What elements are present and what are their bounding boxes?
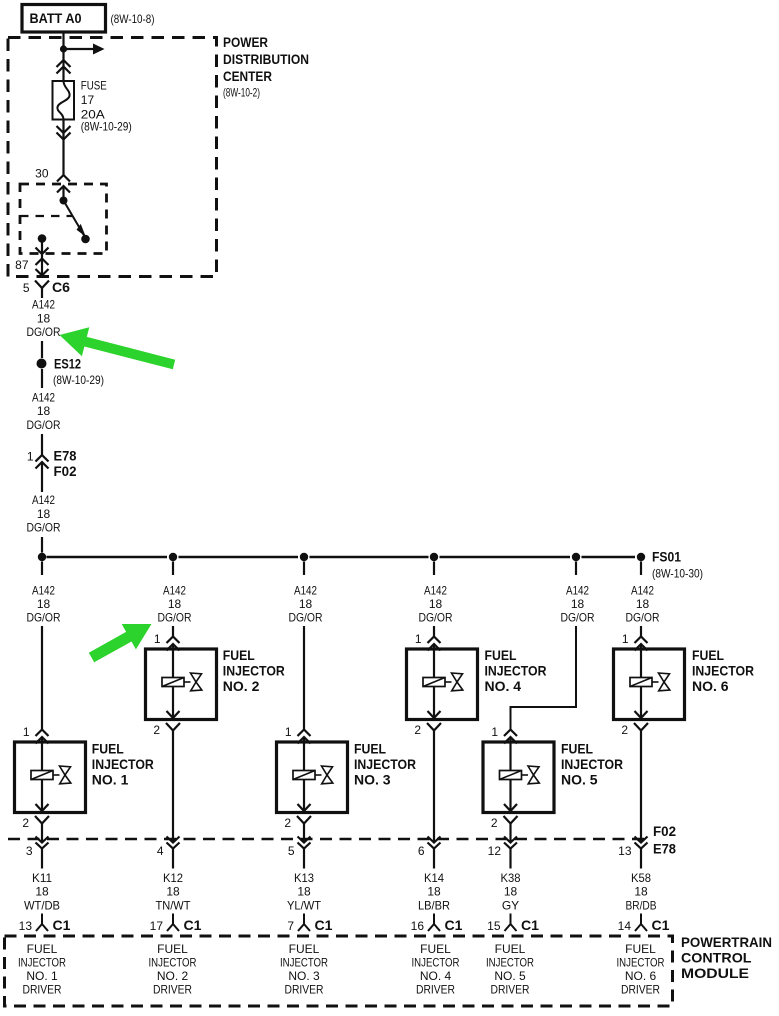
svg-text:18: 18 [168, 597, 182, 611]
injector 6 internal wire to pin 2 [635, 687, 648, 719]
svg-text:NO. 4: NO. 4 [485, 678, 522, 694]
wire label K14 18 LB/BR [418, 871, 450, 913]
pin 1 connector of injector 4 [415, 632, 441, 678]
svg-text:FUEL: FUEL [289, 942, 320, 956]
svg-text:18: 18 [427, 885, 441, 899]
wire from BATT A0 down to fuse [62, 32, 64, 81]
fuel injector no.3 label [354, 741, 416, 788]
svg-text:E78: E78 [653, 841, 676, 857]
injector 5 internal wire to pin 2 [504, 780, 517, 812]
fuel injector no.2 label [223, 647, 285, 694]
svg-text:C1: C1 [445, 917, 463, 933]
svg-text:C6: C6 [52, 279, 70, 295]
bus junction dot 2 [169, 553, 177, 561]
svg-text:C1: C1 [521, 917, 539, 933]
svg-text:2: 2 [491, 816, 498, 830]
wire label K58 18 BR/DB [626, 871, 657, 913]
powertrain control module label [681, 934, 772, 981]
svg-text:(8W-10-29): (8W-10-29) [53, 373, 104, 387]
svg-text:DG/OR: DG/OR [158, 611, 192, 625]
fuel injector no.6 driver label [617, 942, 665, 997]
svg-text:INJECTOR: INJECTOR [92, 756, 154, 772]
svg-text:INJECTOR: INJECTOR [485, 662, 547, 678]
svg-text:NO. 3: NO. 3 [354, 771, 391, 787]
svg-text:1: 1 [491, 725, 498, 739]
svg-text:FUSE: FUSE [81, 79, 107, 93]
connector C1 terminal column 2 [167, 914, 179, 932]
svg-text:C1: C1 [53, 917, 71, 933]
splice label FS01 [652, 549, 703, 581]
svg-text:DG/OR: DG/OR [419, 611, 453, 625]
wire label A142 18 DG/OR column 2 [158, 584, 192, 625]
fuse label [81, 79, 132, 134]
svg-text:INJECTOR: INJECTOR [561, 756, 623, 772]
injector 4 internal wire to pin 2 [428, 687, 441, 719]
wire to fuel injector no.4 [433, 626, 435, 637]
svg-text:2: 2 [22, 816, 29, 830]
svg-text:13: 13 [19, 919, 33, 933]
pin 2 connector of injector 2 [153, 723, 180, 737]
svg-text:NO. 6: NO. 6 [692, 678, 729, 694]
svg-text:(8W-10-29): (8W-10-29) [81, 120, 132, 134]
svg-text:18: 18 [299, 597, 313, 611]
in-line connector dashed line F02 E78 [8, 838, 646, 840]
svg-text:2: 2 [621, 723, 628, 737]
injector 2 solenoid coil [162, 678, 184, 687]
pin 2 connector of injector 3 [284, 816, 311, 830]
svg-text:CENTER: CENTER [223, 69, 272, 84]
svg-text:FUEL: FUEL [495, 942, 526, 956]
wire label A142 18 DG/OR column 5 [561, 584, 595, 625]
svg-text:DISTRIBUTION: DISTRIBUTION [223, 52, 309, 67]
fuel injector no.5 label [561, 741, 623, 788]
wire label A142 18 DG/OR (third) [27, 493, 61, 535]
svg-text:FUEL: FUEL [625, 942, 656, 956]
svg-text:A142: A142 [163, 584, 186, 598]
green highlight arrow 1 pointing at DG/OR wire [60, 327, 176, 369]
svg-text:FS01: FS01 [652, 549, 681, 565]
injector 6 valve symbol [652, 673, 670, 691]
injector 4 solenoid coil [423, 678, 445, 687]
branch arrow to right [64, 44, 105, 55]
svg-text:FUEL: FUEL [692, 647, 724, 663]
relay output terminal dot 87 [38, 234, 47, 243]
wire label A142 18 DG/OR (first) [27, 298, 61, 340]
fuel injector no.6 box [614, 649, 685, 720]
svg-text:DG/OR: DG/OR [27, 325, 61, 339]
injector 3 solenoid coil [293, 771, 315, 780]
relay common terminal dot [60, 197, 68, 205]
male terminal arrow at C6 [36, 269, 49, 276]
svg-text:BATT A0: BATT A0 [30, 10, 82, 26]
svg-text:NO. 5: NO. 5 [561, 771, 598, 787]
fuel injector no.3 driver label [280, 942, 328, 997]
injector 5 valve symbol [522, 766, 540, 784]
automatic shut down relay dashed box [20, 184, 107, 254]
injector 3 internal wire to pin 2 [298, 780, 311, 812]
relay switch arm with arrowhead [64, 201, 86, 239]
injector 4 valve symbol [445, 673, 463, 691]
wire stub below bus dot 5 [575, 562, 577, 576]
fuel injector no.2 driver label [149, 942, 197, 997]
wire label A142 18 DG/OR column 6 [626, 584, 660, 625]
svg-text:2: 2 [153, 723, 160, 737]
svg-text:15: 15 [487, 919, 501, 933]
wire label K38 18 GY [501, 871, 521, 913]
relay internal dashed line [20, 215, 72, 217]
svg-text:FUEL: FUEL [485, 647, 517, 663]
svg-text:18: 18 [166, 885, 180, 899]
svg-text:FUEL: FUEL [420, 942, 451, 956]
svg-text:18: 18 [504, 885, 518, 899]
wire from injector 4 pin 2 to connector line [433, 731, 435, 843]
fuel injector no.2 box [146, 649, 217, 720]
svg-text:YL/WT: YL/WT [287, 899, 322, 913]
pin 1 connector of injector 2 [154, 632, 180, 678]
fuel injector no.1 label [92, 741, 154, 788]
pin 1 connector of injector 6 [622, 632, 648, 678]
svg-text:87: 87 [15, 258, 29, 272]
connector terminals at dashed line column 1 [36, 837, 49, 869]
wire to connector E78 F02 [41, 434, 43, 455]
svg-text:DG/OR: DG/OR [289, 611, 323, 625]
svg-text:1: 1 [622, 632, 629, 646]
svg-text:5: 5 [288, 844, 295, 858]
battery feed box BATT A0 [22, 5, 106, 33]
svg-text:FUEL: FUEL [92, 741, 124, 757]
pin 2 connector of injector 6 [621, 723, 648, 737]
wire from relay 87 through connector C6 [41, 239, 43, 276]
svg-text:C1: C1 [652, 917, 670, 933]
svg-text:POWERTRAIN: POWERTRAIN [681, 934, 772, 950]
wire label A142 18 DG/OR column 4 [419, 584, 453, 625]
svg-text:DG/OR: DG/OR [27, 611, 61, 625]
fuse 17 20A symbol [53, 81, 75, 120]
svg-text:18: 18 [636, 597, 650, 611]
wire label K12 18 TN/WT [156, 871, 192, 913]
connector C1 terminal column 1 [36, 914, 48, 932]
wire from injector 6 pin 2 to connector line [640, 731, 642, 843]
svg-text:GY: GY [502, 899, 519, 913]
power distribution center dashed box [8, 38, 217, 277]
wire below splice ES12 [41, 369, 43, 388]
svg-text:DRIVER: DRIVER [416, 982, 455, 996]
wire label A142 18 DG/OR column 1 [27, 584, 61, 625]
svg-text:WT/DB: WT/DB [24, 899, 60, 913]
svg-text:5: 5 [23, 281, 30, 295]
wire label K11 18 WT/DB [24, 871, 60, 913]
svg-text:NO. 2: NO. 2 [157, 969, 189, 983]
svg-text:DRIVER: DRIVER [23, 982, 62, 996]
fuel injector no.1 box [15, 742, 86, 813]
injector 2 internal wire to pin 2 [167, 687, 180, 719]
svg-text:DRIVER: DRIVER [621, 982, 660, 996]
injector 6 solenoid coil [630, 678, 652, 687]
junction dot below BATT A0 [60, 45, 67, 52]
wire from injector 3 pin 2 to connector line [303, 823, 305, 843]
wire stub below bus dot 3 [303, 562, 305, 576]
wire down to splice bus [41, 537, 43, 553]
svg-text:MODULE: MODULE [681, 965, 749, 981]
injector 1 solenoid coil [31, 771, 53, 780]
wire to fuel injector no.5 with jog [511, 626, 577, 730]
svg-text:A142: A142 [32, 298, 55, 312]
svg-text:INJECTOR: INJECTOR [280, 955, 328, 969]
power distribution center label [223, 35, 309, 100]
pin 1 connector of injector 5 [491, 725, 517, 771]
svg-text:FUEL: FUEL [27, 942, 58, 956]
svg-text:1: 1 [23, 725, 30, 739]
svg-text:A142: A142 [566, 584, 589, 598]
svg-text:POWER: POWER [223, 35, 268, 50]
svg-text:K14: K14 [424, 871, 444, 885]
svg-text:K12: K12 [163, 871, 183, 885]
svg-text:FUEL: FUEL [223, 647, 255, 663]
arrow crossing relay box bottom [36, 248, 49, 255]
svg-text:C1: C1 [315, 917, 333, 933]
wire from fuse to relay [62, 120, 64, 176]
svg-text:A142: A142 [32, 391, 55, 405]
wire stub below bus dot 1 [41, 562, 43, 576]
svg-text:NO. 6: NO. 6 [625, 969, 657, 983]
svg-text:INJECTOR: INJECTOR [18, 955, 66, 969]
splice dot ES12 [37, 359, 47, 369]
svg-text:C1: C1 [184, 917, 202, 933]
wire stub below bus dot 4 [433, 562, 435, 576]
svg-text:NO. 5: NO. 5 [494, 969, 526, 983]
connector terminals at dashed line column 4 [428, 837, 441, 869]
pin 1 connector of injector 3 [285, 725, 311, 771]
connector C1 terminal column 4 [428, 914, 440, 932]
in-line connector E78 F02 [36, 455, 49, 492]
svg-text:NO. 1: NO. 1 [26, 969, 58, 983]
connector terminals at dashed line column 6 [635, 837, 648, 869]
svg-text:18: 18 [37, 404, 51, 418]
fuel injector no.4 label [485, 647, 547, 694]
svg-text:K58: K58 [631, 871, 651, 885]
wire to fuel injector no.3 [303, 626, 305, 730]
svg-text:NO. 3: NO. 3 [288, 969, 320, 983]
svg-text:DG/OR: DG/OR [561, 611, 595, 625]
fuel injector no.5 box [483, 742, 554, 813]
wire from injector 2 pin 2 to connector line [172, 731, 174, 843]
wire to fuel injector no.6 [640, 626, 642, 637]
connector terminals at dashed line column 3 [298, 837, 311, 869]
svg-text:1: 1 [285, 725, 292, 739]
bus junction dot 1 [38, 553, 46, 561]
pin 1 connector of injector 1 [23, 725, 49, 771]
svg-text:TN/WT: TN/WT [156, 899, 192, 913]
pin 2 connector of injector 4 [414, 723, 441, 737]
connector at relay pin 30 [57, 175, 70, 200]
svg-text:LB/BR: LB/BR [418, 899, 450, 913]
svg-text:2: 2 [284, 816, 291, 830]
svg-text:F02: F02 [54, 463, 77, 479]
svg-text:A142: A142 [631, 584, 654, 598]
svg-text:E78: E78 [54, 448, 77, 464]
wire stub below bus dot 6 [640, 562, 642, 576]
svg-text:K38: K38 [501, 871, 521, 885]
bus junction dot 4 [430, 553, 438, 561]
splice bus horizontal wire [47, 556, 636, 558]
svg-text:7: 7 [287, 919, 294, 933]
wire label K13 18 YL/WT [287, 871, 322, 913]
wire stub below bus dot 2 [172, 562, 174, 576]
svg-text:INJECTOR: INJECTOR [486, 955, 534, 969]
powertrain control module dashed box [5, 936, 673, 1006]
connector chevrons above fuse [57, 60, 71, 74]
connector terminals at dashed line column 2 [167, 837, 180, 869]
svg-text:1: 1 [27, 450, 34, 464]
svg-text:FUEL: FUEL [354, 741, 386, 757]
svg-text:DRIVER: DRIVER [285, 982, 324, 996]
svg-text:DG/OR: DG/OR [27, 521, 61, 535]
svg-text:6: 6 [418, 844, 425, 858]
svg-text:FUEL: FUEL [561, 741, 593, 757]
connector C1 terminal column 5 [505, 914, 517, 932]
svg-text:18: 18 [37, 597, 51, 611]
svg-text:16: 16 [411, 919, 425, 933]
svg-text:18: 18 [571, 597, 585, 611]
svg-text:18: 18 [37, 312, 51, 326]
svg-text:1: 1 [415, 632, 422, 646]
wire from injector 1 pin 2 to connector line [41, 823, 43, 843]
bus junction dot 3 [300, 553, 308, 561]
fuel injector no.4 driver label [412, 942, 460, 997]
svg-text:DG/OR: DG/OR [27, 418, 61, 432]
svg-text:A142: A142 [32, 493, 55, 507]
connector chevrons below fuse [57, 126, 71, 140]
splice label ES12 [53, 356, 104, 388]
svg-text:INJECTOR: INJECTOR [149, 955, 197, 969]
svg-text:18: 18 [37, 507, 51, 521]
svg-text:FUEL: FUEL [157, 942, 188, 956]
svg-text:3: 3 [26, 844, 33, 858]
connector label F02 E78 [653, 823, 676, 857]
svg-text:NO. 4: NO. 4 [420, 969, 452, 983]
svg-text:A142: A142 [424, 584, 447, 598]
svg-text:CONTROL: CONTROL [681, 950, 752, 966]
injector 2 valve symbol [184, 673, 202, 691]
svg-text:ES12: ES12 [54, 356, 81, 372]
bus junction dot 6 [637, 553, 645, 561]
svg-text:INJECTOR: INJECTOR [354, 756, 416, 772]
svg-text:(8W-10-2): (8W-10-2) [223, 86, 260, 100]
svg-text:13: 13 [618, 844, 632, 858]
svg-text:INJECTOR: INJECTOR [617, 955, 665, 969]
wire label A142 18 DG/OR column 3 [289, 584, 323, 625]
svg-text:2: 2 [414, 723, 421, 737]
svg-text:18: 18 [634, 885, 648, 899]
svg-text:12: 12 [488, 844, 502, 858]
svg-text:18: 18 [35, 885, 49, 899]
fuel injector no.6 label [692, 647, 754, 694]
injector 3 valve symbol [315, 766, 333, 784]
fuel injector no.3 box [277, 742, 348, 813]
svg-text:17: 17 [81, 93, 95, 107]
svg-text:14: 14 [618, 919, 632, 933]
pin 2 connector of injector 5 [491, 816, 518, 830]
svg-text:DRIVER: DRIVER [153, 982, 192, 996]
injector 5 solenoid coil [500, 771, 522, 780]
connector C1 terminal column 3 [298, 914, 310, 932]
wire from injector 5 pin 2 to connector line [509, 823, 511, 843]
pin 2 connector of injector 1 [22, 816, 49, 830]
green highlight arrow 2 pointing at injector 2 wire [89, 624, 152, 662]
svg-text:DRIVER: DRIVER [491, 982, 530, 996]
connector fork at 87 [36, 259, 49, 266]
wire label A142 18 DG/OR (second) [27, 391, 61, 433]
connector terminals at dashed line column 5 [504, 837, 517, 869]
svg-text:17: 17 [150, 919, 164, 933]
svg-text:INJECTOR: INJECTOR [223, 662, 285, 678]
svg-text:DG/OR: DG/OR [626, 611, 660, 625]
injector 1 internal wire to pin 2 [36, 780, 49, 812]
wire to splice ES12 [41, 341, 43, 358]
svg-text:A142: A142 [294, 584, 317, 598]
svg-text:K13: K13 [294, 871, 314, 885]
svg-text:BR/DB: BR/DB [626, 899, 657, 913]
svg-text:(8W-10-30): (8W-10-30) [652, 567, 703, 581]
fuel injector no.4 box [407, 649, 478, 720]
svg-text:NO. 2: NO. 2 [223, 678, 260, 694]
svg-text:18: 18 [429, 597, 443, 611]
svg-text:INJECTOR: INJECTOR [412, 955, 460, 969]
bus junction dot 5 [572, 553, 580, 561]
fuel injector no.1 driver label [18, 942, 66, 997]
female terminal fork C6 [35, 281, 49, 299]
svg-text:F02: F02 [653, 823, 676, 839]
svg-text:18: 18 [297, 885, 311, 899]
svg-text:1: 1 [154, 632, 161, 646]
injector 1 valve symbol [53, 766, 71, 784]
wire to fuel injector no.2 [172, 626, 174, 637]
relay terminal dot lower right [81, 235, 90, 244]
svg-text:4: 4 [157, 844, 164, 858]
svg-text:K11: K11 [32, 871, 52, 885]
connector C1 terminal column 6 [635, 914, 647, 932]
svg-text:A142: A142 [32, 584, 55, 598]
connector label E78 F02 [54, 448, 77, 480]
svg-text:(8W-10-8): (8W-10-8) [111, 12, 155, 26]
svg-text:30: 30 [35, 167, 49, 181]
svg-text:NO. 1: NO. 1 [92, 771, 129, 787]
svg-text:INJECTOR: INJECTOR [692, 662, 754, 678]
fuel injector no.5 driver label [486, 942, 534, 997]
wire to fuel injector no.1 [41, 626, 43, 730]
